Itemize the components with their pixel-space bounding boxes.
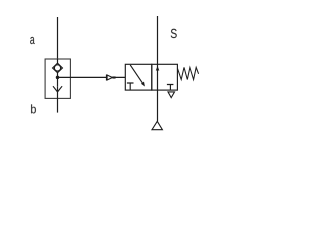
- wire W2 top stub to valve port 2: [157, 16, 159, 64]
- wire segment diamond to junction: [57, 73, 59, 87]
- valve V2 direct exhaust triangle at port 3: [168, 92, 175, 98]
- pilot actuation symbol thick tip segment: [112, 76, 115, 78]
- valve V2 left square diagonal arrowhead: [141, 82, 145, 87]
- pilot actuation symbol open arrow: [107, 75, 112, 80]
- label b: [31, 104, 36, 113]
- valve V2 left square blocked port tee: [127, 83, 134, 90]
- pilot wire from junction to valve: [58, 76, 126, 78]
- valve V2 right square blocked port tee: [167, 85, 174, 90]
- exhaust triangle at line end: [152, 121, 162, 129]
- valve V2 left square flow path diagonal: [130, 65, 143, 85]
- valve V2 right square flow path vertical: [157, 64, 159, 90]
- junction node at pilot tap: [56, 76, 60, 80]
- wire from valve port 1 down to exhaust: [157, 90, 159, 121]
- check valve V1 internal line top: [57, 59, 59, 63]
- flow arrow chevron in V1: [53, 86, 62, 92]
- check valve V1 body box: [45, 59, 70, 98]
- valve V2 body right square: [152, 64, 178, 90]
- wire segment chevron to port b: [57, 86, 59, 112]
- return spring on valve right side: [177, 67, 198, 79]
- valve V2 body left square: [125, 64, 152, 90]
- label S: [171, 29, 177, 38]
- check valve V1 ball circle: [54, 65, 60, 71]
- check valve V1 seat diamond: [53, 63, 63, 72]
- valve V2 right square flow arrowhead up: [156, 66, 160, 71]
- wire W1 top stub to check valve port a: [57, 17, 59, 59]
- pilot actuation symbol bar: [106, 75, 108, 81]
- label a: [30, 37, 35, 44]
